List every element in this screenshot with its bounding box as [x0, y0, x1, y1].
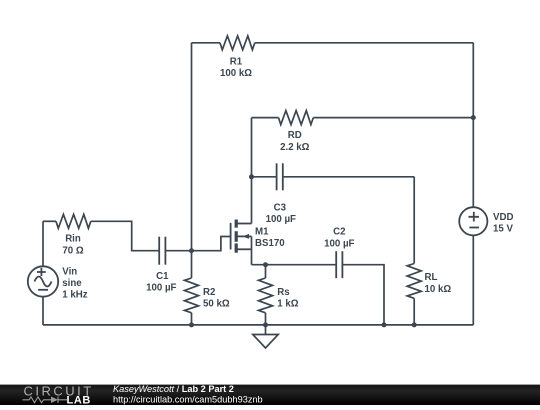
wire C1 right [165, 250, 191, 252]
wire RD right segment [313, 117, 473, 119]
resistor Rin [56, 214, 91, 228]
wire C3 left [252, 176, 277, 178]
svg-text:M1: M1 [255, 227, 269, 238]
RL labels [425, 272, 452, 295]
svg-text:http://circuitlab.com/cam5dubh: http://circuitlab.com/cam5dubh93znb [113, 394, 263, 404]
C2 labels [324, 227, 354, 250]
node Rs ground junction [263, 322, 268, 327]
Rin labels [62, 234, 83, 257]
svg-text:2.2 kΩ: 2.2 kΩ [280, 142, 310, 153]
svg-text:Rs: Rs [277, 287, 289, 298]
resistor R2 [185, 278, 199, 313]
transistor M1 channel segments [235, 220, 238, 253]
svg-text:Vin: Vin [62, 266, 77, 277]
svg-text:100 µF: 100 µF [324, 238, 354, 249]
C1 labels [146, 271, 176, 294]
svg-text:70 Ω: 70 Ω [62, 245, 83, 256]
resistor Rs [259, 278, 273, 313]
wire R2 top [191, 251, 193, 278]
node RD/VDD rail junction [471, 115, 476, 120]
wire top-left horizontal [192, 42, 221, 44]
wire bottom horizontal [43, 324, 473, 326]
svg-text:LAB: LAB [67, 395, 91, 405]
wire C3 right [283, 176, 414, 178]
resistor RD [279, 111, 314, 125]
node R2 ground junction [189, 322, 194, 327]
node RL ground junction [412, 322, 417, 327]
svg-text:100 kΩ: 100 kΩ [220, 68, 252, 79]
node source/Rs/C2 junction [263, 262, 268, 267]
capacitor C1 [159, 237, 165, 265]
wire C2 right [342, 265, 384, 325]
wire source to Rs node [252, 264, 337, 266]
capacitor C3 [277, 163, 283, 190]
svg-text:1 kΩ: 1 kΩ [277, 299, 298, 310]
wire top horizontal right [255, 42, 473, 44]
wire right vertical upper [472, 43, 474, 208]
transistor M1 drain lead [236, 223, 251, 225]
footer bar [0, 385, 540, 405]
wire left vertical [191, 43, 193, 251]
svg-text:Rin: Rin [65, 234, 81, 245]
svg-text:R1: R1 [230, 56, 243, 67]
wire gate step [192, 237, 231, 251]
svg-text:BS170: BS170 [255, 238, 285, 249]
voltage source VDD [459, 207, 487, 235]
svg-text:VDD: VDD [493, 212, 513, 223]
RD labels [280, 130, 310, 153]
svg-text:50 kΩ: 50 kΩ [203, 299, 230, 310]
R1 labels [220, 56, 252, 79]
CircuitLab logo text CIRCUIT [24, 383, 94, 398]
wire right vertical lower [472, 236, 474, 325]
wire RD left segment [252, 117, 279, 119]
node gate/C1/R2 junction [189, 248, 194, 253]
svg-text:C1: C1 [156, 271, 169, 282]
svg-text:C2: C2 [333, 227, 345, 238]
svg-text:RL: RL [425, 272, 438, 283]
footer title [113, 384, 234, 394]
resistor R1 [220, 36, 255, 50]
C3 labels [266, 203, 296, 226]
wire Vin bottom vertical [42, 297, 44, 325]
Vin labels [62, 266, 87, 300]
transistor M1 source lead [236, 248, 251, 250]
wire Rin left [43, 220, 56, 222]
CircuitLab logo squiggle (resistor + diode) [23, 397, 68, 403]
node C2 ground junction [382, 322, 387, 327]
wire RL top vertical [413, 177, 415, 264]
voltage source Vin [28, 266, 58, 296]
svg-text:100 µF: 100 µF [146, 283, 176, 294]
footer url [113, 394, 263, 404]
svg-text:100 µF: 100 µF [266, 214, 296, 225]
wire drain vertical [251, 118, 253, 224]
wire R2 bottom [191, 313, 193, 325]
transistor M1 gate bar [230, 223, 232, 250]
svg-text:C3: C3 [274, 203, 287, 214]
capacitor C2 [336, 251, 342, 278]
Rs labels [277, 287, 298, 310]
CircuitLab logo text LAB [67, 395, 91, 407]
wire Rin right [91, 221, 159, 250]
wire RL bottom vertical [413, 298, 415, 325]
svg-text:15 V: 15 V [493, 224, 513, 235]
wire source vertical [251, 236, 253, 264]
node drain/C3 junction [249, 174, 254, 179]
R2 labels [203, 287, 230, 310]
svg-text:sine: sine [62, 278, 82, 289]
resistor RL [407, 264, 421, 299]
wire Rs top [265, 265, 267, 278]
VDD labels [493, 212, 513, 235]
transistor M1 body lead with arrow [236, 235, 251, 237]
wire Rs bottom [265, 313, 267, 325]
wire Vin top vertical [42, 221, 44, 266]
svg-text:KaseyWestcott / Lab 2 Part 2: KaseyWestcott / Lab 2 Part 2 [113, 384, 234, 394]
ground [253, 325, 278, 348]
svg-text:1 kHz: 1 kHz [62, 290, 87, 301]
M1 labels [255, 227, 285, 249]
svg-text:RD: RD [288, 130, 302, 141]
svg-text:R2: R2 [203, 287, 215, 298]
svg-text:10 kΩ: 10 kΩ [425, 284, 452, 295]
